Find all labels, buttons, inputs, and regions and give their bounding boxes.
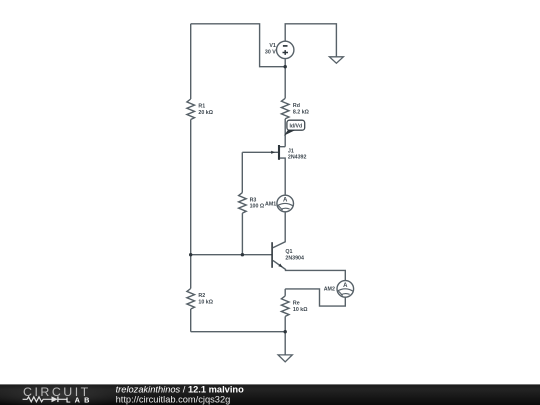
svg-text:Q1: Q1 [285, 249, 292, 255]
svg-text:LAB: LAB [66, 396, 94, 405]
svg-text:http://circuitlab.com/cjqs32g: http://circuitlab.com/cjqs32g [116, 394, 231, 404]
svg-text:Id/Vd: Id/Vd [289, 123, 302, 129]
svg-text:10 kΩ: 10 kΩ [198, 300, 213, 306]
svg-text:R2: R2 [198, 293, 205, 299]
svg-text:Re: Re [293, 300, 300, 306]
svg-text:R3: R3 [250, 197, 257, 203]
svg-text:2N4392: 2N4392 [288, 155, 307, 161]
svg-text:trelozakinthinos / 12.1 malvin: trelozakinthinos / 12.1 malvino [116, 385, 244, 395]
svg-text:AM1: AM1 [265, 201, 276, 207]
svg-text:Rd: Rd [293, 103, 300, 109]
svg-text:J1: J1 [288, 148, 294, 154]
svg-text:R1: R1 [198, 103, 205, 109]
svg-text:2N3904: 2N3904 [285, 256, 304, 262]
svg-text:20 kΩ: 20 kΩ [198, 110, 213, 116]
svg-text:AM2: AM2 [324, 287, 335, 293]
svg-text:10 kΩ: 10 kΩ [293, 307, 308, 313]
svg-text:30 V: 30 V [265, 49, 276, 55]
svg-text:A: A [343, 283, 348, 289]
svg-text:8.2 kΩ: 8.2 kΩ [293, 109, 310, 115]
svg-text:V1: V1 [269, 43, 276, 49]
svg-text:A: A [283, 198, 288, 204]
svg-text:100 Ω: 100 Ω [250, 204, 265, 210]
